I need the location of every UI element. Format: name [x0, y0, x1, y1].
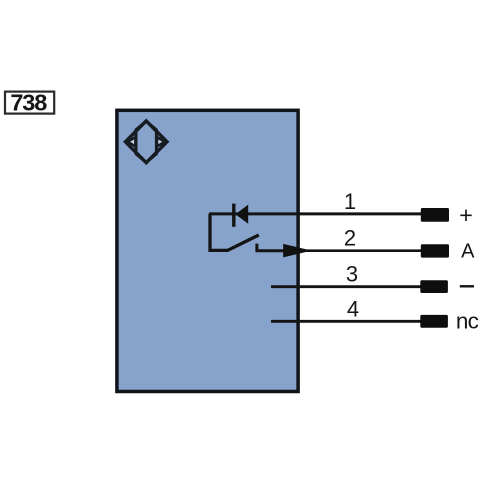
wire 1: [209, 212, 422, 215]
sensor body: [117, 110, 298, 391]
figure label box 738: [5, 90, 54, 116]
terminal 1: [421, 208, 449, 222]
label minus: [460, 285, 474, 287]
svg-text:+: +: [459, 202, 473, 228]
sensor symbol (diamond): [125, 121, 167, 163]
terminal 4: [420, 315, 448, 328]
switch S1: [227, 235, 284, 251]
svg-text:nc: nc: [456, 308, 479, 333]
wire 2: [284, 249, 422, 252]
output arrow: [283, 244, 311, 258]
svg-text:3: 3: [346, 262, 358, 287]
terminal 3: [420, 280, 448, 293]
svg-text:1: 1: [344, 189, 356, 214]
wire 3: [271, 285, 421, 288]
svg-text:738: 738: [10, 90, 47, 116]
terminal 2: [421, 244, 449, 257]
wire: left branch corner: [210, 214, 228, 251]
diode D1: [234, 204, 248, 227]
svg-text:2: 2: [344, 226, 356, 251]
svg-text:4: 4: [347, 296, 359, 321]
wire 4: [271, 320, 421, 323]
svg-text:A: A: [461, 241, 475, 263]
